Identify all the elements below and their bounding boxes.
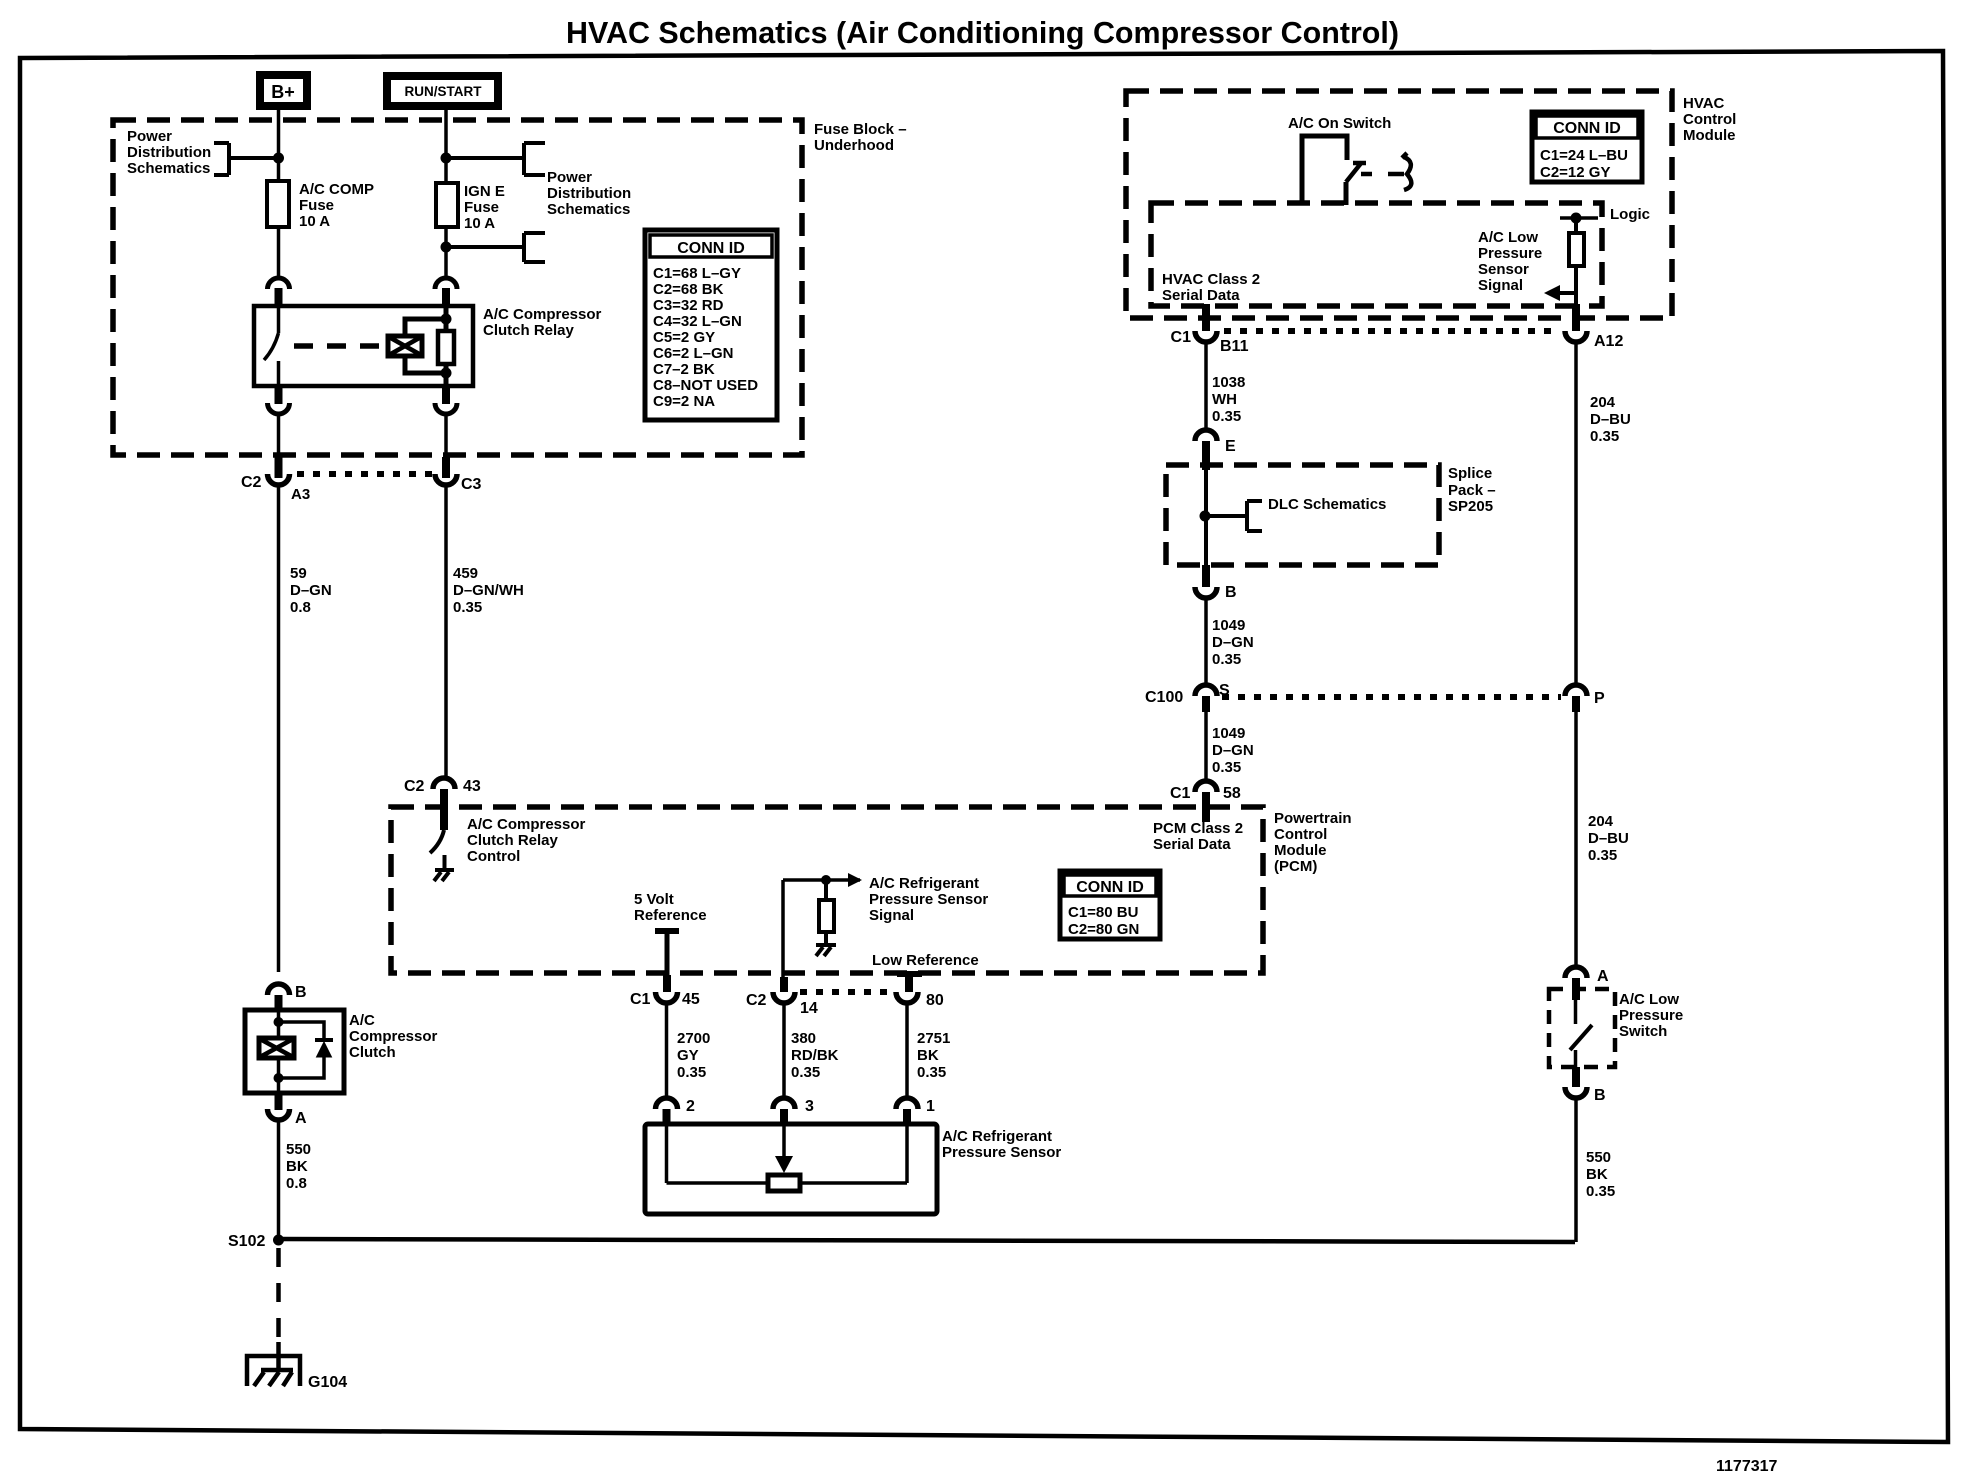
svg-text:Fuse Block –: Fuse Block –	[814, 121, 907, 138]
node clutch bottom junction	[274, 1073, 284, 1083]
svg-text:D–GN: D–GN	[1212, 742, 1254, 759]
connector arc into relay (left)	[268, 278, 290, 306]
svg-text:HVAC Class 2: HVAC Class 2	[1162, 271, 1260, 288]
sensor wiper arrow	[775, 1124, 793, 1173]
power terminal B+	[260, 75, 307, 106]
connector A12 arc	[1565, 304, 1623, 350]
fuse A/C COMP 10A	[267, 181, 374, 230]
svg-text:Switch: Switch	[1619, 1023, 1667, 1040]
connector 80 arc	[896, 992, 944, 1009]
svg-text:Power: Power	[547, 169, 592, 186]
wire relay right leg to C3 connector	[444, 414, 448, 457]
svg-text:A/C Compressor: A/C Compressor	[467, 816, 586, 833]
svg-text:GY: GY	[677, 1047, 699, 1064]
svg-text:HVAC Schematics (Air Condition: HVAC Schematics (Air Conditioning Compre…	[566, 15, 1399, 50]
node junction on RUN/START feed lower	[441, 242, 452, 253]
svg-text:B: B	[1225, 584, 1237, 601]
svg-text:A/C On Switch: A/C On Switch	[1288, 115, 1391, 132]
svg-text:D–GN: D–GN	[290, 582, 332, 599]
wire B+ to fuse	[277, 110, 281, 181]
svg-text:550: 550	[286, 1141, 311, 1158]
svg-text:C1=68 L–GY: C1=68 L–GY	[653, 265, 741, 282]
wire 2751 BK 0.35	[907, 1002, 950, 1098]
wire 550 BK 0.8	[279, 1120, 312, 1240]
svg-text:E: E	[1225, 438, 1236, 455]
inline connector dotted line C1-A12	[1224, 328, 1558, 334]
svg-text:204: 204	[1590, 394, 1616, 411]
pressure switch contact	[1570, 1000, 1592, 1067]
connector A pressure switch arc	[1565, 967, 1609, 1000]
svg-text:A/C Refrigerant: A/C Refrigerant	[869, 875, 979, 892]
svg-text:C2=80 GN: C2=80 GN	[1068, 921, 1139, 938]
svg-text:Splice: Splice	[1448, 465, 1492, 482]
svg-text:C7–2 BK: C7–2 BK	[653, 361, 715, 378]
connector pin 1 arc	[896, 1098, 935, 1130]
clutch diode branch	[279, 1022, 334, 1078]
splice S102	[228, 1233, 284, 1250]
node junction on B+ feed	[273, 153, 284, 164]
svg-text:43: 43	[463, 778, 481, 795]
relay coil	[388, 336, 422, 356]
svg-text:A12: A12	[1594, 333, 1623, 350]
node clutch top junction	[274, 1017, 284, 1027]
svg-text:3: 3	[805, 1098, 814, 1115]
svg-text:58: 58	[1223, 785, 1241, 802]
node relay coil bottom junction	[441, 368, 452, 379]
svg-text:Compressor: Compressor	[349, 1028, 438, 1045]
A/C Refrigerant Pressure Sensor box	[645, 1124, 1061, 1214]
HVAC logic dashed box	[1151, 203, 1602, 306]
wire 2700 GY 0.35	[667, 1002, 711, 1098]
splice pack SP205 dashed box	[1166, 465, 1496, 565]
wire 1038 WH 0.35	[1206, 342, 1245, 430]
svg-text:Low Reference: Low Reference	[872, 952, 979, 969]
svg-text:Powertrain: Powertrain	[1274, 810, 1352, 827]
svg-text:Schematics: Schematics	[127, 160, 210, 177]
svg-text:WH: WH	[1212, 391, 1237, 408]
svg-text:459: 459	[453, 565, 478, 582]
svg-text:RUN/START: RUN/START	[405, 84, 483, 99]
connector C2 A3 stub	[275, 457, 283, 478]
svg-text:A/C Refrigerant: A/C Refrigerant	[942, 1128, 1052, 1145]
svg-text:D–BU: D–BU	[1588, 830, 1629, 847]
wire 204 D-BU 0.35 upper	[1576, 342, 1631, 685]
svg-text:1038: 1038	[1212, 374, 1245, 391]
svg-text:C9=2 NA: C9=2 NA	[653, 393, 715, 410]
svg-text:C5=2 GY: C5=2 GY	[653, 329, 715, 346]
svg-text:Module: Module	[1274, 842, 1327, 859]
svg-text:C4=32 L–GN: C4=32 L–GN	[653, 313, 742, 330]
ground G104	[247, 1342, 347, 1391]
wire fuse IGN E down	[444, 227, 448, 279]
svg-text:2700: 2700	[677, 1030, 710, 1047]
connector C100 S arc	[1145, 682, 1230, 712]
label A/C Compressor Clutch Relay Control	[467, 816, 586, 865]
A/C Compressor Clutch box	[245, 1010, 438, 1093]
CONN ID table HVAC	[1532, 112, 1642, 182]
svg-text:0.35: 0.35	[677, 1064, 706, 1081]
fuse block underhood dashed box	[113, 120, 802, 455]
svg-text:A/C Compressor: A/C Compressor	[483, 306, 602, 323]
connector B splice arc	[1195, 565, 1237, 601]
svg-text:C1: C1	[1170, 785, 1191, 802]
relay resistor	[438, 306, 454, 386]
svg-text:10 A: 10 A	[299, 213, 330, 230]
connector pin 2 arc	[656, 1098, 696, 1130]
svg-text:C2=68 BK: C2=68 BK	[653, 281, 724, 298]
svg-text:Logic: Logic	[1610, 206, 1650, 223]
wire fuse to relay connector	[277, 227, 281, 279]
svg-text:C2: C2	[241, 474, 262, 491]
DLC schematics tap	[1205, 496, 1386, 531]
svg-text:C2: C2	[746, 992, 767, 1009]
wire relay left leg to C2 connector	[277, 414, 281, 457]
svg-text:(PCM): (PCM)	[1274, 858, 1317, 875]
node splice junction	[1200, 511, 1211, 522]
svg-text:C6=2 L–GN: C6=2 L–GN	[653, 345, 733, 362]
PCM powertrain control module dashed box	[391, 807, 1263, 973]
connector E arc	[1195, 430, 1236, 470]
relay switch contact	[264, 306, 279, 386]
pressure sensor signal pull-up resistor	[783, 873, 862, 977]
svg-text:Clutch Relay: Clutch Relay	[467, 832, 559, 849]
svg-text:C100: C100	[1145, 689, 1183, 706]
svg-text:0.35: 0.35	[1212, 408, 1241, 425]
PCM internal ground	[434, 870, 454, 881]
svg-text:A: A	[1597, 968, 1609, 985]
svg-text:Serial Data: Serial Data	[1153, 836, 1231, 853]
svg-text:DLC Schematics: DLC Schematics	[1268, 496, 1386, 513]
svg-text:0.35: 0.35	[791, 1064, 820, 1081]
svg-text:Pack –: Pack –	[1448, 482, 1496, 499]
svg-text:D–GN/WH: D–GN/WH	[453, 582, 524, 599]
svg-text:204: 204	[1588, 813, 1614, 830]
svg-text:Distribution: Distribution	[547, 185, 631, 202]
label HVAC Control Module	[1683, 95, 1736, 144]
wire S102 to ground dashed	[276, 1248, 281, 1348]
label A/C Refrigerant Pressure Sensor Signal	[869, 875, 988, 924]
svg-text:550: 550	[1586, 1149, 1611, 1166]
connector A clutch arc	[268, 1093, 308, 1127]
CONN ID table PCM	[1060, 871, 1160, 939]
svg-text:C1=80 BU: C1=80 BU	[1068, 904, 1138, 921]
svg-text:RD/BK: RD/BK	[791, 1047, 839, 1064]
svg-text:1: 1	[926, 1098, 935, 1115]
svg-text:BK: BK	[917, 1047, 939, 1064]
wire 550 BK 0.35	[1576, 1098, 1615, 1242]
node junction on RUN/START feed upper	[441, 153, 452, 164]
svg-text:D–GN: D–GN	[1212, 634, 1254, 651]
svg-text:Pressure Sensor: Pressure Sensor	[869, 891, 988, 908]
svg-text:0.8: 0.8	[286, 1175, 307, 1192]
PCM relay control switch	[430, 830, 445, 869]
connector C1 45 arc	[630, 991, 700, 1008]
svg-text:C2=12 GY: C2=12 GY	[1540, 164, 1610, 181]
svg-text:P: P	[1594, 690, 1605, 707]
svg-text:A3: A3	[291, 486, 310, 503]
connector C2 A3 arc	[241, 474, 310, 503]
svg-text:Pressure Sensor: Pressure Sensor	[942, 1144, 1061, 1161]
svg-text:A/C Low: A/C Low	[1619, 991, 1679, 1008]
connector C3 arc	[435, 474, 482, 493]
svg-text:CONN ID: CONN ID	[1553, 120, 1621, 137]
svg-text:0.35: 0.35	[917, 1064, 946, 1081]
svg-text:C2: C2	[404, 778, 425, 795]
power distribution schematics tap (right lower)	[446, 233, 545, 262]
wire 380 RD/BK 0.35	[784, 1002, 839, 1098]
svg-text:Signal: Signal	[869, 907, 914, 924]
signal direction arrow	[1544, 285, 1576, 301]
label Powertrain Control Module (PCM)	[1274, 810, 1352, 875]
svg-text:A/C: A/C	[349, 1012, 375, 1029]
wire RUN/START to fuse	[444, 110, 448, 183]
svg-text:0.35: 0.35	[1590, 428, 1619, 445]
svg-text:0.35: 0.35	[1212, 651, 1241, 668]
svg-text:IGN E: IGN E	[464, 183, 505, 200]
A/C low pressure switch dashed box	[1549, 989, 1683, 1067]
svg-text:SP205: SP205	[1448, 498, 1493, 515]
svg-text:0.35: 0.35	[1212, 759, 1241, 776]
wire 204 D-BU 0.35 lower	[1576, 710, 1629, 967]
svg-text:B: B	[1594, 1087, 1606, 1104]
svg-text:B: B	[295, 984, 307, 1001]
svg-text:A/C Low: A/C Low	[1478, 229, 1538, 246]
power terminal RUN/START	[387, 76, 498, 106]
pull-up resistor ground	[816, 945, 836, 956]
connector arc into relay (right)	[435, 278, 457, 306]
svg-text:Sensor: Sensor	[1478, 261, 1529, 278]
wire 59 D-GN 0.8	[279, 485, 332, 972]
svg-text:Schematics: Schematics	[547, 201, 630, 218]
wire 1049 D-GN 0.35 lower	[1206, 710, 1254, 781]
svg-text:Clutch: Clutch	[349, 1044, 396, 1061]
svg-text:HVAC: HVAC	[1683, 95, 1725, 112]
clutch coil wire through	[277, 1010, 281, 1093]
fuse IGN E 10A	[436, 183, 505, 232]
sensor potentiometer network	[667, 1124, 908, 1191]
connector C2 43 arc	[404, 778, 481, 830]
svg-text:Fuse: Fuse	[464, 199, 499, 216]
CONN ID table fuse block	[645, 230, 777, 420]
svg-text:Distribution: Distribution	[127, 144, 211, 161]
wire 1049 D-GN 0.35 upper	[1206, 598, 1254, 685]
connector pin 3 arc	[773, 1098, 814, 1130]
svg-text:45: 45	[682, 991, 700, 1008]
relay linkage dashed	[294, 343, 386, 349]
svg-text:59: 59	[290, 565, 307, 582]
svg-text:Fuse: Fuse	[299, 197, 334, 214]
svg-text:Pressure: Pressure	[1619, 1007, 1683, 1024]
svg-text:B+: B+	[271, 82, 295, 102]
inline connector dotted line C2-C3	[297, 471, 433, 477]
power distribution schematics tap (left)	[127, 128, 278, 177]
connector arc below relay (right)	[435, 386, 457, 414]
wire through splice pack	[1204, 470, 1208, 565]
svg-text:S102: S102	[228, 1233, 265, 1250]
svg-text:Underhood: Underhood	[814, 137, 894, 154]
clutch coil symbol	[259, 1038, 294, 1058]
svg-text:A: A	[295, 1110, 307, 1127]
svg-text:5 Volt: 5 Volt	[634, 891, 674, 908]
svg-text:1049: 1049	[1212, 617, 1245, 634]
connector P arc	[1565, 685, 1605, 712]
svg-text:C1=24 L–BU: C1=24 L–BU	[1540, 147, 1628, 164]
svg-text:CONN ID: CONN ID	[1076, 879, 1144, 896]
svg-text:1049: 1049	[1212, 725, 1245, 742]
svg-text:D–BU: D–BU	[1590, 411, 1631, 428]
svg-text:C8–NOT USED: C8–NOT USED	[653, 377, 758, 394]
switch A/C On Switch	[1288, 115, 1411, 205]
connector C3 stub	[442, 457, 450, 478]
connector arc below relay (left)	[268, 386, 290, 414]
connector B pressure switch arc	[1565, 1067, 1606, 1104]
svg-text:C1: C1	[1171, 329, 1192, 346]
logic node tick	[1560, 213, 1598, 224]
relay A/C Compressor Clutch Relay box	[254, 306, 602, 386]
relay coil parallel loop wires	[405, 319, 446, 373]
svg-text:14: 14	[800, 1000, 818, 1017]
svg-text:CONN ID: CONN ID	[677, 240, 745, 257]
svg-text:A/C COMP: A/C COMP	[299, 181, 374, 198]
svg-text:C1: C1	[630, 991, 651, 1008]
label Fuse Block - Underhood	[814, 121, 907, 154]
connector C1 B11 arc	[1171, 304, 1249, 355]
svg-text:C3: C3	[461, 476, 482, 493]
svg-text:PCM Class 2: PCM Class 2	[1153, 820, 1243, 837]
svg-text:B11: B11	[1220, 338, 1249, 355]
power distribution schematics tap (right upper)	[446, 143, 631, 218]
svg-text:10 A: 10 A	[464, 215, 495, 232]
svg-text:Pressure: Pressure	[1478, 245, 1542, 262]
label PCM Class 2 Serial Data	[1153, 820, 1243, 853]
low reference tap	[872, 952, 979, 992]
svg-text:Module: Module	[1683, 127, 1736, 144]
connector C1 58 arc	[1170, 781, 1241, 822]
svg-text:Signal: Signal	[1478, 277, 1523, 294]
svg-text:Control: Control	[1274, 826, 1327, 843]
svg-text:Reference: Reference	[634, 907, 707, 924]
svg-text:Control: Control	[1683, 111, 1736, 128]
svg-text:BK: BK	[286, 1158, 308, 1175]
logic pull-up resistor	[1569, 218, 1584, 328]
svg-text:2: 2	[686, 1098, 695, 1115]
connector B clutch arc	[268, 984, 307, 1012]
node relay coil top junction	[441, 314, 452, 325]
svg-text:G104: G104	[308, 1374, 347, 1391]
label A/C Low Pressure Sensor Signal	[1478, 229, 1542, 294]
label HVAC Class 2 Serial Data	[1162, 271, 1260, 304]
5 volt reference source	[634, 891, 707, 992]
svg-text:1177317: 1177317	[1716, 1458, 1778, 1472]
HVAC control module dashed box	[1126, 91, 1672, 318]
wire S102 bus to right	[279, 1239, 1576, 1242]
svg-text:2751: 2751	[917, 1030, 950, 1047]
svg-text:0.35: 0.35	[1588, 847, 1617, 864]
svg-text:BK: BK	[1586, 1166, 1608, 1183]
svg-text:0.8: 0.8	[290, 599, 311, 616]
svg-text:Clutch Relay: Clutch Relay	[483, 322, 575, 339]
svg-text:0.35: 0.35	[1586, 1183, 1615, 1200]
inline connector dotted line S-P	[1222, 694, 1561, 700]
svg-text:80: 80	[926, 992, 944, 1009]
svg-text:0.35: 0.35	[453, 599, 482, 616]
svg-text:Control: Control	[467, 848, 520, 865]
svg-text:380: 380	[791, 1030, 816, 1047]
connector C2 14 arc	[746, 977, 818, 1017]
svg-text:Power: Power	[127, 128, 172, 145]
svg-text:Serial Data: Serial Data	[1162, 287, 1240, 304]
svg-text:C3=32 RD: C3=32 RD	[653, 297, 724, 314]
wire 459 D-GN/WH 0.35	[446, 485, 524, 778]
inline connector dotted line C2-80	[800, 989, 893, 995]
